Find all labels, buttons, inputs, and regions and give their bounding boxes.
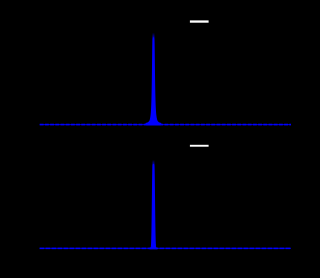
top baseline (bright dashed core) (40, 124, 291, 126)
bottom legend handle (white dash) (190, 145, 209, 147)
bottom baseline (dim continuous) (40, 247, 291, 249)
top baseline (dim continuous) (40, 124, 291, 126)
bottom baseline (bright dashed core) (40, 247, 291, 249)
bottom spike tip fade (152, 160, 154, 165)
top legend handle (white dash) (190, 20, 209, 22)
bottom curve spike (blue Gaussian delta kernel) (150, 165, 157, 248)
top curve spike (blue Cauchy delta kernel) (146, 38, 160, 124)
top spike tip fade (152, 33, 154, 39)
